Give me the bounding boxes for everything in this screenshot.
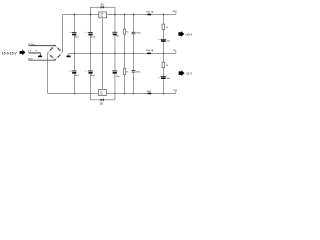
- wire: top +raw rail: [63, 14, 176, 16]
- junction 0V / R1-R3: [124, 53, 126, 55]
- capacitor C2 (top filter, x=90.3): [85, 15, 96, 54]
- svg-text:100n: 100n: [136, 33, 141, 35]
- resistor R4 (x=163.3 bottom): [162, 54, 169, 94]
- svg-text:FS2 1A: FS2 1A: [146, 49, 154, 52]
- bridge rectifier B1: diamond: [48, 45, 63, 61]
- junction +raw / C1: [74, 14, 76, 16]
- svg-text:100n: 100n: [136, 72, 141, 74]
- fuse F2 (mid rail): [147, 53, 151, 55]
- capacitor C7 (bottom filter, x=90.3): [85, 54, 96, 94]
- resistor R3 (x=124.5 bottom): [123, 54, 129, 94]
- diode mark on L-B side: [50, 55, 52, 57]
- junction 0V / C5-C10 branch: [163, 53, 165, 55]
- svg-text:0 V: 0 V: [28, 50, 32, 52]
- diode mark on B-R side: [57, 55, 59, 57]
- svg-text:15-0-15 V: 15-0-15 V: [2, 51, 18, 55]
- junction +raw / C2 and D1 loop: [90, 14, 92, 16]
- junction +15V / C4: [133, 14, 135, 16]
- side L-T: [48, 46, 56, 53]
- input arrow: [20, 50, 26, 56]
- wire: bypass loop over regulator U1: [91, 7, 115, 14]
- diode D1 (across U1, cathode left): [101, 4, 105, 8]
- junction -raw / C7 and D2 loop: [90, 93, 92, 95]
- node dot at bridge AC top: [54, 45, 56, 47]
- regulator U2 7915: [99, 89, 107, 95]
- wire: U1 ground pin down to 0V: [102, 18, 104, 54]
- capacitor C5 (x=163.3 top elco): [158, 39, 170, 42]
- output arrow -15V: [179, 70, 193, 76]
- capacitor C3 (reg output elco, x=114.8): [112, 15, 120, 54]
- junction -15V / C8 and D2 loop: [114, 93, 116, 95]
- wire: bypass loop under regulator U2: [91, 94, 115, 100]
- junction 0V / U1-U2 ground pins: [102, 53, 104, 55]
- wire: bottom -raw rail: [48, 93, 176, 95]
- wire: mid rail end tick: [175, 51, 177, 53]
- junction +15V / C3 and D1 loop: [114, 14, 116, 16]
- capacitor C1 (top filter, x=74): [69, 15, 80, 54]
- svg-text:FS1 1A: FS1 1A: [146, 10, 154, 13]
- svg-text:+15 V: +15 V: [185, 33, 193, 37]
- side T-R: [55, 46, 63, 53]
- wire: AC input 2 (centre tap): [29, 52, 41, 54]
- wire: top rail end tick: [175, 12, 177, 14]
- capacitor C9 100n (x=133.5 bottom): [132, 54, 142, 94]
- junction -15V / C9: [133, 93, 135, 95]
- wire: centre tap stub down: [39, 53, 41, 56]
- side L-B: [48, 53, 56, 60]
- junction 0V / C3-C8: [114, 53, 116, 55]
- side B-R: [55, 53, 63, 60]
- fuse F1 (top rail): [147, 14, 151, 16]
- wire: U2 ground pin up to 0V: [102, 54, 104, 90]
- fuse F3 (bottom rail): [148, 93, 152, 95]
- wire: AC input 1 (top): [29, 45, 56, 47]
- capacitor C8 (reg output elco, x=114.8 bottom): [112, 54, 120, 94]
- resistor R1 (x=124.5): [123, 15, 129, 54]
- wire: mid 0V rail: [68, 53, 176, 55]
- wire: left vertical from top rail to bridge +: [62, 15, 64, 53]
- svg-text:+15V: +15V: [172, 11, 178, 13]
- junction +15V / R2 branch: [163, 14, 165, 16]
- wire: mid rail left end stub down: [67, 54, 69, 56]
- diode mark on L-T side: [50, 48, 52, 50]
- capacitor C4 100n (x=133.5): [132, 15, 142, 54]
- wire: bottom rail end tick: [175, 91, 177, 93]
- wire: AC input 3 (bottom): [29, 59, 56, 61]
- terminal lens (0V rail side): [66, 56, 70, 58]
- diode mark on T-R side: [57, 47, 59, 49]
- terminal lens (centre tap): [38, 56, 42, 58]
- diode D2 (across U2, cathode right): [100, 99, 104, 106]
- junction -15V / R3: [124, 93, 126, 95]
- capacitor C10 (x=163.3 bottom elco): [158, 77, 170, 80]
- junction +15V / R1: [124, 14, 126, 16]
- junction -15V / R4 branch: [163, 93, 165, 95]
- resistor R2 (x=163.3 top): [162, 15, 169, 54]
- regulator U1 7815: [99, 12, 107, 18]
- svg-text:15 Vac: 15 Vac: [28, 44, 36, 46]
- node dot at bridge AC bottom: [54, 59, 56, 61]
- svg-text:15 V: 15 V: [28, 58, 33, 60]
- svg-text:-15 V: -15 V: [185, 72, 192, 76]
- wire: left vertical from bridge - to bottom rail: [47, 53, 49, 94]
- svg-text:-15V: -15V: [173, 90, 178, 92]
- junction 0V / C4-C9: [133, 53, 135, 55]
- junction 0V / C2: [90, 53, 92, 55]
- junction -raw / C6: [74, 93, 76, 95]
- capacitor C6 (bottom filter, x=74): [69, 54, 80, 94]
- junction 0V / C1: [74, 53, 76, 55]
- output arrow +15V: [178, 31, 192, 37]
